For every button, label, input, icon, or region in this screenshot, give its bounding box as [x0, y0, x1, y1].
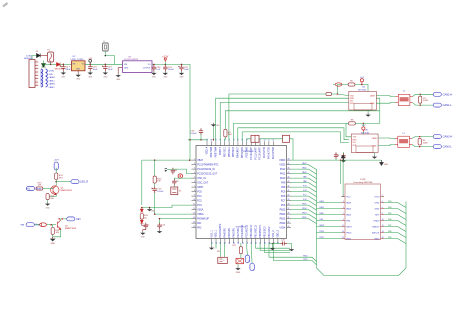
svg-text:PA15/JTDI: PA15/JTDI — [263, 147, 266, 158]
svg-text:VSS_1: VSS_1 — [211, 230, 213, 238]
port OUT1 — [71, 180, 79, 184]
svg-text:PA4/SPI1: PA4/SPI1 — [224, 227, 227, 238]
resistor R3 — [224, 129, 227, 137]
svg-text:45: 45 — [288, 172, 290, 174]
wire input — [32, 56, 37, 60]
svg-text:GND: GND — [141, 237, 146, 239]
svg-text:VDD_2: VDD_2 — [278, 229, 280, 237]
ground — [367, 110, 369, 113]
svg-text:PB5: PB5 — [388, 213, 391, 215]
wire can2h out — [412, 137, 433, 139]
svg-text:PC0: PC0 — [197, 191, 202, 193]
+5V flag — [89, 59, 92, 64]
svg-text:100nF: 100nF — [190, 133, 197, 135]
svg-text:GND: GND — [375, 202, 380, 204]
svg-text:CANH2: CANH2 — [49, 83, 55, 86]
svg-text:PA9: PA9 — [303, 176, 306, 179]
svg-text:CANL2: CANL2 — [49, 86, 55, 89]
wire 3.3V rail — [152, 64, 190, 139]
wire vbat vertical — [141, 160, 143, 205]
svg-text:PA11: PA11 — [280, 172, 286, 175]
diode D1 — [37, 54, 41, 58]
svg-text:PC9: PC9 — [281, 191, 286, 193]
svg-text:VBAT: VBAT — [197, 159, 203, 162]
svg-text:PC13/TAMPER-RTC: PC13/TAMPER-RTC — [197, 163, 219, 166]
svg-text:PA14/JTCK: PA14/JTCK — [268, 147, 271, 159]
svg-text:PA13: PA13 — [346, 201, 352, 204]
svg-text:16: 16 — [193, 226, 195, 228]
svg-text:MMBT3904: MMBT3904 — [65, 228, 77, 230]
wire PB10 to bus — [269, 243, 317, 262]
wire PB11 to bus — [273, 243, 316, 265]
wire jumper loop — [105, 51, 114, 64]
wire 5V rail — [85, 63, 123, 65]
svg-text:PA3/USART2: PA3/USART2 — [219, 223, 222, 238]
wire r3 pullup — [225, 111, 379, 130]
svg-text:20: 20 — [229, 242, 231, 244]
svg-text:OSC_IN: OSC_IN — [197, 178, 206, 180]
svg-text:23: 23 — [242, 242, 244, 244]
svg-text:CANL: CANL — [372, 145, 377, 148]
svg-text:PA2: PA2 — [197, 226, 202, 229]
svg-text:PA10: PA10 — [302, 171, 306, 174]
capacitor C20 — [152, 65, 156, 72]
svg-text:MMBT3904: MMBT3904 — [61, 190, 73, 192]
svg-text:PB0/ADC12: PB0/ADC12 — [250, 224, 253, 237]
svg-text:40: 40 — [288, 195, 290, 197]
svg-text:25: 25 — [251, 242, 253, 244]
svg-text:PB9/TIM4: PB9/TIM4 — [211, 146, 213, 157]
svg-text:GND: GND — [116, 79, 121, 81]
svg-text:PA15: PA15 — [320, 212, 324, 215]
bead FB4 — [178, 174, 182, 178]
svg-text:VTref: VTref — [374, 195, 379, 198]
wire CAN2 STB — [242, 132, 349, 143]
svg-text:GND: GND — [76, 69, 81, 71]
svg-text:16: 16 — [382, 237, 384, 239]
capacitor C26 — [334, 152, 338, 159]
svg-text:VSS4: VSS4 — [279, 227, 286, 229]
connector CON1 — [29, 60, 38, 88]
transceiver U5 — [351, 134, 378, 152]
diode D2 — [57, 63, 61, 67]
svg-text:Cortex debug SWD/JTAG: Cortex debug SWD/JTAG — [353, 181, 373, 184]
svg-text:1uF: 1uF — [156, 69, 160, 71]
svg-text:6: 6 — [382, 207, 383, 209]
svg-text:VIO: VIO — [353, 142, 357, 144]
wire CAN1 RX — [216, 98, 349, 141]
svg-text:PB10/I2C2: PB10/I2C2 — [264, 226, 266, 238]
ferrite bead FB1 — [251, 135, 259, 142]
svg-text:PB10: PB10 — [303, 255, 307, 257]
ground — [163, 71, 168, 75]
capacitor C25 — [280, 242, 287, 246]
ground — [118, 67, 122, 69]
svg-text:PC7: PC7 — [281, 200, 286, 202]
svg-text:PB13: PB13 — [302, 213, 306, 215]
svg-text:OSC_OUT: OSC_OUT — [197, 182, 209, 184]
resistor R8 — [349, 122, 356, 125]
svg-text:PA8: PA8 — [21, 224, 24, 227]
svg-text:CANH1: CANH1 — [49, 76, 55, 79]
svg-text:GND: GND — [76, 79, 81, 81]
ground — [61, 71, 66, 75]
svg-text:12: 12 — [193, 208, 195, 210]
svg-text:SWDIO: SWDIO — [372, 226, 379, 228]
svg-text:OUTPUT: OUTPUT — [143, 67, 152, 69]
resistor R13 — [36, 187, 43, 190]
wire vt drop — [342, 160, 344, 196]
svg-text:7: 7 — [194, 186, 195, 188]
svg-text:CAN1-L: CAN1-L — [443, 103, 453, 107]
ground — [77, 71, 79, 73]
capacitor C13 — [40, 223, 47, 227]
svg-text:36: 36 — [288, 213, 290, 215]
ground — [88, 71, 93, 75]
svg-text:PA15: PA15 — [346, 213, 352, 216]
svg-text:R16: R16 — [217, 251, 220, 253]
svg-text:PB7/I2C1: PB7/I2C1 — [224, 146, 226, 157]
svg-text:PC5/ADC12: PC5/ADC12 — [246, 224, 249, 237]
svg-text:PB7: PB7 — [388, 225, 391, 227]
wire vdd drop to vbat — [189, 140, 191, 160]
svg-text:LP38_TO252: LP38_TO252 — [71, 59, 85, 61]
svg-text:CAN1-H: CAN1-H — [443, 92, 453, 96]
svg-text:PA11: PA11 — [302, 167, 306, 170]
svg-text:CANL: CANL — [370, 102, 375, 105]
svg-text:RXD: RXD — [353, 139, 358, 141]
ground — [237, 264, 239, 267]
svg-text:1: 1 — [194, 159, 195, 161]
svg-text:PA7/SPI1: PA7/SPI1 — [237, 227, 240, 238]
resistor R17 — [240, 243, 242, 247]
svg-text:PA12: PA12 — [280, 168, 286, 171]
ground — [151, 71, 156, 75]
svg-text:120R: 120R — [423, 100, 428, 102]
svg-text:GND: GND — [152, 77, 157, 79]
button S1 — [236, 258, 244, 263]
port CAN2-H — [433, 135, 441, 139]
capacitor C21 — [163, 65, 167, 72]
svg-text:48: 48 — [288, 159, 290, 161]
svg-text:SIT1042: SIT1042 — [358, 90, 367, 92]
svg-text:GND: GND — [375, 208, 380, 210]
wire canl2 — [378, 145, 395, 146]
wire CAN1 TX — [229, 94, 326, 141]
port CAN1-L — [433, 103, 441, 107]
svg-text:PA13: PA13 — [320, 200, 324, 203]
svg-text:GND: GND — [49, 74, 54, 76]
svg-text:42: 42 — [216, 139, 218, 141]
ferrite bead FB2 — [283, 135, 290, 142]
svg-text:120R: 120R — [423, 142, 428, 144]
svg-text:7: 7 — [343, 213, 344, 215]
svg-text:41: 41 — [288, 190, 290, 192]
svg-text:PB3/JTDO: PB3/JTDO — [242, 147, 244, 158]
svg-text:GND: GND — [236, 272, 241, 274]
svg-text:15: 15 — [342, 237, 344, 239]
svg-text:PB13: PB13 — [280, 218, 286, 220]
svg-text:PC1: PC1 — [197, 196, 202, 198]
port in — [26, 187, 34, 191]
svg-text:PB9: PB9 — [388, 237, 391, 239]
svg-text:PA8: PA8 — [303, 180, 306, 183]
svg-text:33: 33 — [288, 226, 290, 228]
resistor R7 120R — [419, 96, 422, 103]
svg-text:1: 1 — [343, 195, 344, 197]
bead FB3 — [335, 83, 342, 86]
svg-text:8: 8 — [194, 190, 195, 192]
svg-text:9: 9 — [343, 219, 344, 221]
resistor R12 — [55, 173, 58, 180]
svg-text:GND: GND — [216, 125, 221, 127]
ground — [341, 159, 346, 163]
svg-text:CAN2-H: CAN2-H — [443, 135, 453, 139]
wire CAN2 TX — [233, 123, 346, 141]
svg-text:CAN2-L: CAN2-L — [443, 145, 453, 149]
resistor R10 — [154, 160, 156, 176]
svg-text:PC3: PC3 — [197, 205, 202, 207]
wire collector — [61, 219, 67, 220]
svg-text:11: 11 — [342, 225, 344, 227]
svg-text:46: 46 — [288, 168, 290, 170]
diode LED1 — [140, 209, 143, 212]
wire base — [43, 188, 53, 190]
svg-text:PB6: PB6 — [388, 219, 391, 221]
svg-text:10uF: 10uF — [108, 69, 114, 71]
capacitor C24 — [341, 153, 345, 160]
svg-text:PB14: PB14 — [302, 208, 306, 210]
svg-text:PA12: PA12 — [302, 162, 306, 165]
svg-text:12: 12 — [382, 225, 384, 227]
regulator U3 — [123, 61, 153, 73]
wire collector node — [55, 180, 57, 186]
svg-text:2: 2 — [382, 195, 383, 197]
svg-text:+5V: +5V — [88, 58, 92, 60]
wire debug top — [340, 160, 342, 184]
svg-text:PA10: PA10 — [280, 177, 286, 180]
capacitor C7 — [165, 169, 167, 172]
svg-text:4: 4 — [382, 201, 383, 203]
svg-text:10uF: 10uF — [93, 69, 99, 71]
svg-text:PB3: PB3 — [320, 219, 323, 221]
svg-text:PA5/SPI1: PA5/SPI1 — [228, 227, 231, 238]
capacitor C19 — [103, 64, 107, 71]
svg-text:PC4/ADC12: PC4/ADC12 — [241, 224, 244, 237]
svg-text:LED_R: LED_R — [80, 181, 88, 184]
wire can2l out — [412, 145, 433, 147]
port in PA8 — [26, 223, 34, 227]
port BOOT0 — [245, 255, 249, 262]
svg-text:1M: 1M — [157, 181, 160, 183]
svg-text:PA8: PA8 — [281, 186, 286, 189]
ground — [50, 237, 56, 242]
wire can1l out — [413, 103, 433, 106]
svg-text:PB11: PB11 — [346, 238, 352, 240]
ground2 — [272, 244, 274, 247]
svg-text:42: 42 — [288, 186, 290, 188]
svg-text:10K: 10K — [228, 134, 232, 136]
svg-text:R17: R17 — [233, 245, 236, 247]
svg-text:PB10: PB10 — [320, 231, 324, 233]
svg-text:34: 34 — [288, 222, 290, 224]
svg-text:LD1117S33TR: LD1117S33TR — [124, 59, 139, 61]
svg-text:VSS_2: VSS_2 — [273, 230, 275, 238]
svg-text:14: 14 — [382, 231, 384, 233]
svg-text:None: None — [36, 188, 42, 191]
resistor R11 — [140, 214, 143, 220]
svg-text:PD2/TIM3: PD2/TIM3 — [246, 146, 248, 157]
svg-text:CON2: CON2 — [360, 179, 366, 181]
svg-text:PB8/TIM4: PB8/TIM4 — [216, 146, 218, 157]
diode LED2 — [140, 220, 143, 223]
bus left vertical — [317, 169, 407, 275]
svg-text:GND: GND — [46, 207, 51, 209]
ground — [287, 244, 292, 248]
svg-text:PB2/BOOT1: PB2/BOOT1 — [260, 224, 262, 237]
port +3.3V in — [54, 162, 58, 170]
transistor Q1 — [51, 186, 59, 195]
svg-text:PC7: PC7 — [303, 195, 307, 197]
svg-text:TXD: TXD — [353, 137, 357, 139]
svg-text:39: 39 — [288, 199, 290, 201]
svg-text:PB1/ADC12: PB1/ADC12 — [255, 224, 258, 237]
wire vt rail — [291, 159, 382, 161]
supply VCC1 — [360, 79, 363, 85]
svg-text:5: 5 — [343, 207, 344, 209]
svg-text:10: 10 — [382, 219, 384, 221]
fuse F1 — [48, 52, 54, 62]
svg-text:22: 22 — [238, 242, 240, 244]
svg-text:KEY: KEY — [375, 214, 380, 216]
capacitor C9 — [172, 179, 176, 186]
supply VCC2 — [362, 127, 365, 132]
svg-text:C25: C25 — [281, 240, 284, 242]
svg-text:SWO: SWO — [374, 238, 379, 240]
svg-text:VDD3: VDD3 — [279, 160, 286, 162]
svg-text:CANL1: CANL1 — [49, 79, 55, 82]
wire out — [56, 181, 70, 183]
svg-text:3: 3 — [194, 168, 195, 170]
svg-text:100nF: 100nF — [168, 69, 175, 71]
svg-text:100nF: 100nF — [157, 191, 164, 193]
power flag +3.3V — [164, 58, 166, 62]
MCU top pins — [207, 141, 273, 145]
TVS diode D3 — [42, 64, 46, 68]
svg-text:PC10/UART: PC10/UART — [259, 146, 262, 159]
capacitor C22 — [179, 65, 183, 72]
wire tx jog — [347, 122, 349, 124]
svg-text:SIT1042: SIT1042 — [361, 132, 370, 134]
wire vdd1 — [215, 243, 217, 249]
wire can1h out — [413, 94, 433, 96]
wire nrst — [155, 213, 192, 215]
svg-text:PA14: PA14 — [320, 206, 324, 209]
svg-text:GND: GND — [180, 77, 185, 79]
crystal X2 — [219, 243, 221, 257]
wire vio loop — [376, 98, 380, 123]
svg-text:GND: GND — [163, 77, 168, 79]
wire mcu right stubs — [291, 165, 317, 170]
svg-text:PA0/WKUP: PA0/WKUP — [197, 217, 209, 220]
svg-text:PA14: PA14 — [346, 207, 352, 210]
port BOOT1 — [250, 263, 254, 271]
svg-text:14: 14 — [193, 217, 195, 219]
power flag VT — [341, 155, 345, 160]
svg-text:15: 15 — [193, 222, 195, 224]
capacitor C18 — [88, 64, 92, 71]
wire debug right wires — [384, 203, 406, 208]
svg-text:PC6: PC6 — [303, 199, 307, 201]
svg-text:PB12: PB12 — [302, 217, 306, 219]
svg-text:44: 44 — [288, 177, 290, 179]
svg-text:PC6: PC6 — [26, 188, 30, 190]
svg-text:PC11/UART: PC11/UART — [254, 146, 257, 159]
svg-text:PC8: PC8 — [281, 196, 286, 198]
svg-text:43: 43 — [288, 181, 290, 183]
transistor Q2 — [58, 220, 61, 229]
ground — [103, 71, 108, 75]
svg-text:3: 3 — [343, 201, 344, 203]
svg-text:PC6: PC6 — [281, 205, 286, 207]
resistor R14 — [46, 194, 49, 200]
svg-text:VSSA: VSSA — [197, 208, 204, 211]
svg-text:PB5/SPI3: PB5/SPI3 — [233, 146, 235, 157]
svg-text:GND: GND — [151, 211, 156, 213]
svg-text:10uF: 10uF — [184, 69, 190, 71]
svg-text:GND: GND — [50, 243, 55, 245]
wire CAN2 RX — [238, 128, 349, 141]
port CAN1-H — [433, 92, 441, 96]
capacitor C23 — [199, 128, 203, 135]
ground — [179, 71, 184, 75]
svg-text:VDDA: VDDA — [197, 213, 204, 216]
svg-text:NRST: NRST — [346, 226, 352, 228]
svg-text:GND: GND — [124, 67, 129, 69]
svg-text:GND: GND — [61, 76, 66, 78]
svg-text:VDD_4: VDD_4 — [207, 146, 209, 154]
choke L2 — [396, 94, 413, 105]
wire CAN1 — [332, 94, 349, 96]
svg-text:VDD_1: VDD_1 — [216, 229, 218, 237]
ground — [140, 231, 145, 235]
jumper J1 — [103, 43, 109, 51]
power flag gnd — [380, 160, 384, 165]
MCU left pins — [192, 160, 197, 228]
svg-text:13: 13 — [193, 213, 195, 215]
MCU right pins — [287, 160, 292, 228]
capacitor C11 — [144, 223, 148, 230]
svg-text:VCC: VCC — [360, 77, 365, 79]
svg-text:GND: GND — [103, 76, 108, 78]
resistor R15 — [51, 228, 54, 235]
svg-text:PA1: PA1 — [197, 222, 202, 225]
svg-text:PC14/OSC32_IN: PC14/OSC32_IN — [197, 169, 215, 171]
svg-text:68uF: 68uF — [66, 69, 72, 71]
svg-text:PB11/I2C2: PB11/I2C2 — [269, 226, 271, 238]
wire canh2 — [378, 137, 395, 139]
svg-text:PB15: PB15 — [280, 209, 286, 211]
svg-text:11: 11 — [193, 204, 195, 206]
svg-text:35: 35 — [288, 217, 290, 219]
svg-text:47: 47 — [288, 163, 290, 165]
svg-text:PB4/JRST: PB4/JRST — [238, 146, 240, 157]
svg-text:PA9: PA9 — [281, 181, 286, 184]
svg-text:38: 38 — [288, 204, 290, 206]
wire emitter — [48, 195, 57, 197]
ground — [211, 123, 216, 127]
svg-text:PA6/SPI1: PA6/SPI1 — [232, 227, 235, 238]
